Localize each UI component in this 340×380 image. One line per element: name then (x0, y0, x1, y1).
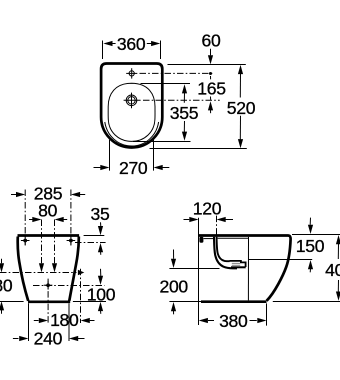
svg-text:240: 240 (34, 329, 63, 349)
floor line (side view) (169, 301, 340, 303)
svg-text:165: 165 (197, 79, 226, 99)
faucet centerline (dash-dot to right) (140, 72, 214, 74)
drain seat level line (side view right) (249, 259, 313, 261)
dim 35 (top edge to fixing holes) (75, 204, 110, 255)
side inlet vertical reference (dash-dot) (80, 269, 82, 323)
dim 270 (front width) (94, 139, 170, 178)
svg-text:270: 270 (119, 158, 148, 178)
svg-text:355: 355 (170, 103, 199, 123)
tap hole centerlines (vertical dash-dot, arrow ends) (39, 220, 57, 273)
dim 240 (base width) (13, 303, 85, 348)
drain hole (top view) (124, 93, 141, 109)
inner bowl (top view) (108, 83, 155, 141)
svg-text:180: 180 (50, 310, 79, 330)
svg-text:150: 150 (296, 236, 325, 256)
fixing hole left (front view) (21, 237, 30, 245)
rim underside lines (204, 238, 214, 240)
drain vertical centerline (dash-dot) (47, 279, 49, 323)
top edge extension line (168, 64, 246, 66)
bottom edge extension line (520) (150, 148, 247, 150)
svg-text:120: 120 (193, 199, 222, 219)
drain centerline (dash-dot to right) (143, 99, 220, 101)
dim 180 (drain to side inlet) (34, 310, 95, 330)
dim 100 (floor to drain level) (87, 269, 116, 314)
faucet hole (top view) (126, 68, 137, 78)
gasket lines (232, 262, 240, 264)
drain seat bottom (231, 266, 246, 268)
section cut line (247, 237, 249, 301)
fixing hole centerlines (vertical dash-dot) (24, 190, 26, 246)
svg-text:180: 180 (0, 275, 13, 295)
dim 520 (overall depth) (227, 65, 256, 148)
dim 360 (top width) (103, 34, 161, 59)
svg-text:400: 400 (325, 260, 340, 280)
top edge extension line (side view right) (292, 234, 340, 236)
svg-text:520: 520 (227, 98, 256, 118)
dim 150 (top edge to seat level) (296, 218, 325, 273)
dim 80 (tap holes distance) (29, 201, 67, 223)
dim 355 (bowl interior length) (133, 84, 199, 142)
dimension dot (60/165 common point) (209, 72, 212, 75)
back lip block (199, 237, 203, 243)
bowl outer wall (section) (214, 237, 237, 268)
back wall line and extensions (side view) (198, 218, 200, 325)
bowl bottom level line (169, 268, 219, 270)
dim 285 (fixing holes distance) (11, 184, 85, 204)
dim 165 (faucet line to drain line) (197, 76, 226, 113)
bidet outer rim (top view) (101, 64, 162, 148)
svg-text:360: 360 (117, 34, 146, 54)
drain level line (dash-dot) (33, 285, 105, 287)
bowl inner wall (section) (217, 237, 230, 261)
dim 400 (overall height, cut by image edge) (325, 235, 340, 301)
svg-text:380: 380 (219, 311, 248, 331)
front drain crosshair (44, 281, 53, 290)
faucet centerline (side view, vertical dash-dot) (216, 216, 218, 249)
svg-text:60: 60 (202, 31, 221, 51)
dim 180 left (floor to inlet, cut by image edge) (0, 259, 13, 314)
svg-text:80: 80 (38, 201, 57, 221)
svg-text:200: 200 (159, 277, 188, 297)
side water-inlet line (dash-dot) with arrow (0, 270, 84, 275)
base bottom edge (201, 300, 267, 303)
bidet body (front view) (18, 236, 80, 302)
dim 380 (base depth) (199, 303, 267, 331)
dim 60 (top edge to faucet line) (202, 31, 221, 65)
svg-text:35: 35 (91, 204, 110, 224)
top deck edge + front curve (198, 236, 290, 301)
fixing hole right (front view) (67, 237, 76, 245)
svg-text:100: 100 (87, 285, 116, 305)
floor line (front view) (0, 301, 106, 303)
drain seat top with step (230, 261, 246, 267)
dim 120 (wall to faucet axis) (184, 199, 234, 222)
rim inner edge arc (top view bottom) (105, 122, 159, 146)
dim 200 (floor to bowl bottom) (159, 250, 188, 315)
